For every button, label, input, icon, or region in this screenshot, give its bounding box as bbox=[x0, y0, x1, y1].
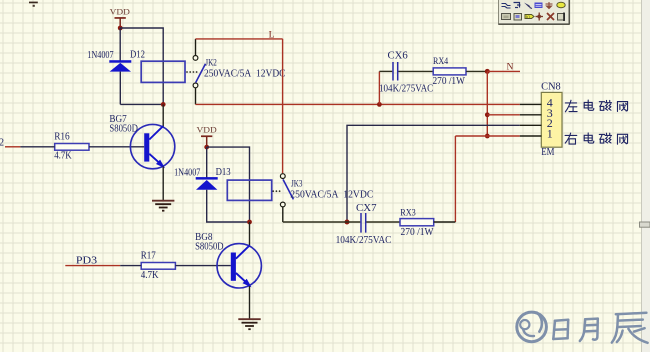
resistor RX3 bbox=[400, 219, 434, 226]
watermark logo 日月辰 bbox=[517, 312, 547, 342]
wire pin2 navy bbox=[347, 125, 520, 222]
power symbol VDD (net VDD, upper) bbox=[110, 7, 130, 28]
wire R16 to BG7 base bbox=[89, 146, 144, 148]
cut-off power symbol at top-left bbox=[29, 2, 38, 7]
wire PD2 to R16 bbox=[20, 146, 54, 148]
wire RX4 to N node bbox=[466, 70, 487, 72]
logo character 日 bbox=[553, 320, 568, 339]
wire N vertical bbox=[486, 71, 488, 136]
右 bbox=[565, 133, 577, 144]
relay contact JK3 blade bbox=[283, 179, 293, 199]
node JK2 coil bottom junction dot bbox=[161, 102, 166, 107]
wire BG8 collector bbox=[249, 222, 251, 246]
svg-text:4.7K: 4.7K bbox=[141, 270, 159, 281]
pin 4 stub bbox=[520, 103, 542, 105]
JK2 linkage dotted line bbox=[186, 71, 197, 73]
toolbar icon text frame bbox=[558, 13, 565, 22]
right window edge strip bbox=[640, 0, 650, 352]
wire VDD2 down to D13 cathode bbox=[206, 147, 208, 178]
capacitor CX7 bbox=[361, 213, 366, 233]
svg-text:R16: R16 bbox=[54, 131, 69, 142]
resistor R17 bbox=[141, 263, 175, 270]
wire pin1 vertical to RX3 bbox=[454, 136, 456, 222]
toolbar icon sheet symbol bbox=[502, 14, 511, 20]
svg-text:250VAC/5A 12VDC: 250VAC/5A 12VDC bbox=[204, 69, 286, 80]
toolbar icon port bbox=[525, 14, 534, 19]
svg-text:IO: IO bbox=[526, 14, 530, 19]
wire L vertical to JK3 top contact bbox=[282, 39, 284, 173]
node pin2/CX7 junction dot bbox=[345, 220, 350, 225]
wire PD2 red stub bbox=[5, 146, 20, 148]
wire pin1 red bbox=[455, 135, 519, 137]
relay contact JK2 bottom terminal bbox=[193, 83, 198, 88]
capacitor CX6 bbox=[393, 62, 398, 81]
node CX6 branch junction dot bbox=[377, 102, 382, 107]
wire VDD2 to JK3 coil top bbox=[207, 147, 250, 222]
电 bbox=[584, 100, 594, 110]
toolbar icon no-ERC cross bbox=[547, 13, 554, 20]
wire PD3 to R17 bbox=[120, 265, 141, 267]
svg-text:D12: D12 bbox=[130, 50, 145, 61]
磁 bbox=[599, 100, 611, 110]
logo character 辰 bbox=[612, 313, 648, 343]
toolbar icon sheet entry bbox=[514, 14, 522, 21]
resistor R16 bbox=[55, 144, 89, 151]
diode D12 1N4007 bbox=[109, 60, 131, 71]
wire CX6 branch vertical bbox=[378, 71, 380, 104]
svg-text:VDD: VDD bbox=[197, 125, 217, 135]
logo character 月 bbox=[580, 319, 598, 341]
resistor RX4 bbox=[433, 68, 466, 75]
wire RX3 to pin1 riser bbox=[434, 221, 456, 223]
wire BG7 collector bbox=[162, 104, 164, 126]
toolbar icon part body bbox=[557, 2, 565, 8]
阀 bbox=[617, 102, 627, 112]
svg-text:270 /1W: 270 /1W bbox=[433, 76, 466, 87]
pin 1 stub bbox=[520, 135, 542, 137]
svg-text:N: N bbox=[507, 62, 514, 73]
wire CX7 to RX3 bbox=[366, 221, 400, 223]
wire VDD down to D12 cathode bbox=[119, 28, 121, 61]
toolbar icon net label bbox=[535, 3, 543, 9]
磁 bbox=[599, 133, 611, 143]
wire N stub bbox=[487, 70, 520, 72]
power symbol VDD (net VDD, lower) bbox=[197, 125, 217, 148]
svg-text:PD3: PD3 bbox=[76, 255, 97, 266]
relay contact JK2 top terminal bbox=[193, 56, 198, 61]
svg-text:104K/275VAC: 104K/275VAC bbox=[379, 83, 433, 94]
左 bbox=[565, 100, 577, 112]
toolbar icon part placement bbox=[524, 3, 532, 9]
wire L rail horizontal bbox=[196, 38, 283, 40]
wire D12 anode to node bbox=[119, 72, 121, 105]
svg-text:L: L bbox=[269, 29, 275, 40]
transistor BG8 S8050D bbox=[217, 244, 261, 288]
relay contact JK3 bottom terminal bbox=[280, 202, 285, 207]
wire CX6 to RX4 bbox=[398, 70, 433, 72]
JK3 linkage dotted line bbox=[272, 190, 280, 192]
svg-text:270 /1W: 270 /1W bbox=[401, 227, 434, 238]
svg-text:CN8: CN8 bbox=[541, 82, 561, 93]
toolbar icon wire tool bbox=[502, 4, 511, 9]
svg-text:RX3: RX3 bbox=[400, 208, 416, 219]
label 右电磁阀 (right solenoid valve) bbox=[565, 133, 627, 144]
wire BG7 emitter to ground bbox=[162, 167, 164, 201]
wire JK2 bottom contact down bbox=[195, 88, 197, 105]
svg-text:S8050D: S8050D bbox=[195, 241, 224, 252]
node VDD junction dot bbox=[118, 26, 123, 31]
svg-text:JK2: JK2 bbox=[205, 57, 217, 67]
svg-text:CX6: CX6 bbox=[388, 51, 408, 62]
label 左电磁阀 (left solenoid valve) bbox=[565, 100, 627, 112]
wire VDD to JK2 coil top bbox=[120, 28, 163, 104]
node pin1 junction dot bbox=[485, 134, 490, 139]
ground (BG8 emitter) bbox=[238, 319, 260, 329]
svg-text:1N4007: 1N4007 bbox=[87, 50, 113, 61]
wire coil-bottom rail bbox=[120, 103, 163, 105]
svg-text:S8050D: S8050D bbox=[109, 124, 137, 135]
wire D13 anode down and right bbox=[207, 190, 250, 222]
电 bbox=[584, 133, 594, 143]
wire JK2 top contact to L rail bbox=[195, 39, 197, 56]
svg-text:JK3: JK3 bbox=[291, 178, 303, 188]
svg-text:CX7: CX7 bbox=[356, 203, 377, 214]
wire CX6 left lead bbox=[379, 70, 392, 72]
阀 bbox=[617, 134, 627, 144]
ground (BG7 emitter) bbox=[152, 201, 174, 211]
splitter tab bbox=[640, 222, 650, 227]
svg-text:R17: R17 bbox=[141, 251, 156, 262]
svg-text:1N4007: 1N4007 bbox=[174, 167, 200, 178]
svg-text:RX4: RX4 bbox=[433, 56, 448, 67]
relay contact JK2 blade bbox=[196, 64, 206, 83]
wire JK3 output to CX7 bbox=[283, 221, 361, 223]
relay coil JK2 box bbox=[141, 61, 185, 82]
toolbar icon junction bbox=[536, 13, 544, 21]
node N junction dot bbox=[485, 69, 490, 74]
wire R17 to BG8 base bbox=[175, 265, 230, 267]
wire JK2 output rail to CN8 pin4 bbox=[196, 103, 520, 105]
pin 2 stub bbox=[520, 124, 542, 126]
toolbar icon power port bbox=[546, 2, 553, 9]
connector CN8 bbox=[541, 92, 562, 147]
relay coil JK3 box bbox=[227, 180, 271, 200]
svg-text:VDD: VDD bbox=[110, 7, 130, 17]
transistor BG7 S8050D bbox=[130, 124, 174, 168]
toolbar icon bus tool bbox=[514, 3, 521, 8]
svg-text:104K/275VAC: 104K/275VAC bbox=[336, 235, 392, 246]
wire BG8 emitter to ground bbox=[249, 286, 251, 319]
relay contact JK3 top terminal bbox=[280, 174, 285, 179]
wire JK3 bottom contact down bbox=[282, 207, 284, 222]
toolbar panel bbox=[499, 0, 570, 24]
svg-text:4.7K: 4.7K bbox=[54, 151, 72, 162]
node JK3 coil bottom junction dot bbox=[247, 220, 252, 225]
node pin3 junction dot bbox=[485, 112, 490, 117]
svg-text:EM: EM bbox=[541, 147, 554, 158]
svg-text:1: 1 bbox=[547, 127, 553, 141]
pin 3 stub bbox=[520, 114, 542, 116]
svg-text:250VAC/5A 12VDC: 250VAC/5A 12VDC bbox=[290, 190, 373, 201]
svg-text:2: 2 bbox=[0, 137, 4, 148]
diode D13 1N4007 bbox=[196, 177, 218, 190]
node VDD2 junction dot bbox=[204, 145, 209, 150]
wire pin3 red bbox=[487, 114, 520, 116]
wire PD3 red bbox=[65, 265, 120, 267]
svg-text:D13: D13 bbox=[216, 167, 231, 178]
